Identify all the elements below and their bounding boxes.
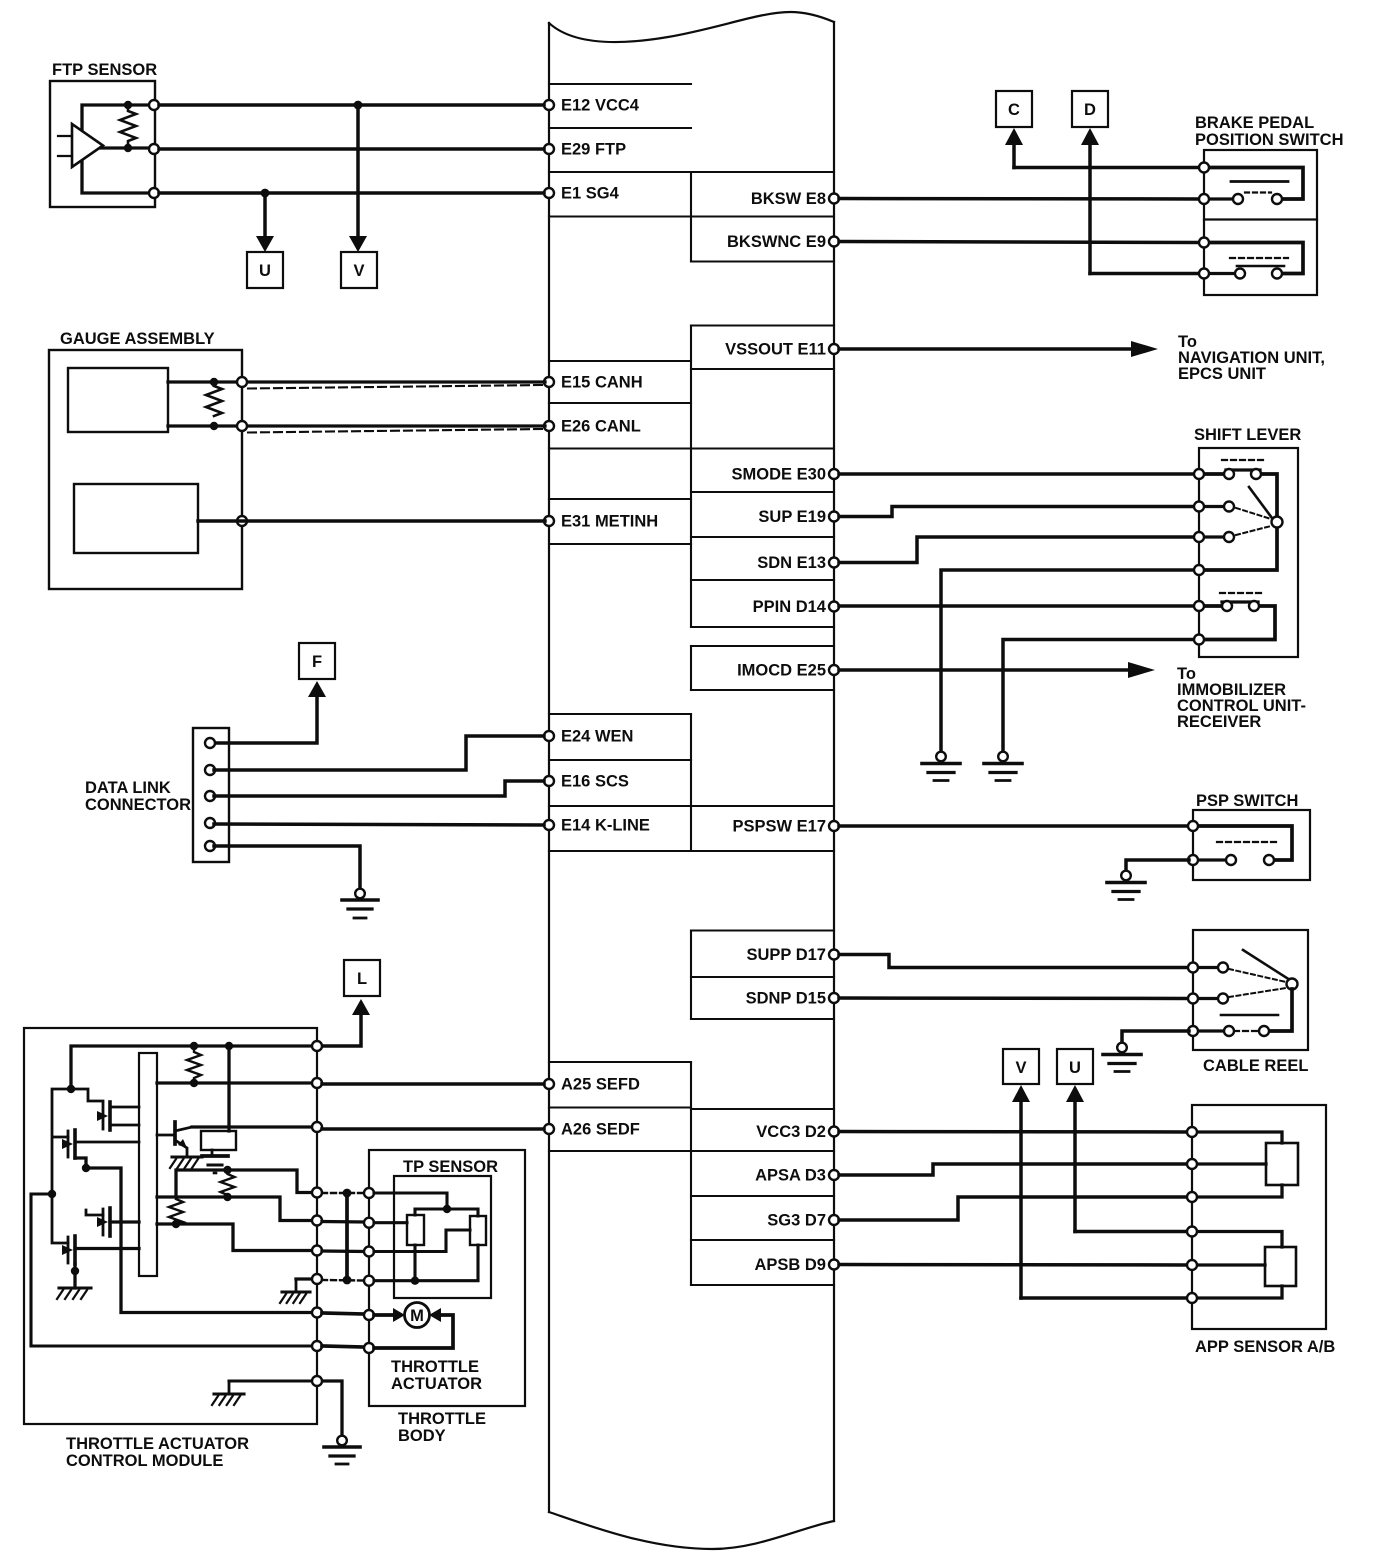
wire SUP E19 to shift lever [839,507,1195,517]
wire module pin 1 to connector L [321,1010,361,1046]
svg-text:E24 WEN: E24 WEN [561,728,633,746]
pin PSPSW E17 [732,818,839,836]
svg-text:PPIN D14: PPIN D14 [753,598,827,616]
wire FTP to E1 SG4 [159,191,544,195]
wire CANL dashed pair to E26 [248,429,543,433]
chassis ground symbol [324,1436,360,1464]
pin E31 METINH [544,513,658,531]
svg-text:GAUGE ASSEMBLY: GAUGE ASSEMBLY [60,330,215,348]
internal SEDF wire (collector to A26 pin) [192,1125,313,1128]
svg-text:V: V [353,262,364,280]
junction dots FTP [124,101,132,109]
resistor R-b [221,1170,235,1197]
wire SUPP D17 to cable reel [839,955,1189,968]
MOSFET Q2 [97,1102,110,1130]
wire SG3 D7 to APP sensor [839,1197,1188,1220]
THROTTLE BODY box [369,1150,525,1406]
pin VSSOUT E11 [725,341,839,359]
FTP op-amp (pressure transducer amp) [58,124,103,167]
shift lever internals [1204,460,1283,640]
pin E24 WEN [544,728,633,746]
wire C-line to switch [1014,166,1200,170]
svg-text:E12 VCC4: E12 VCC4 [561,97,640,115]
wire SMODE E30 to shift lever [839,472,1195,476]
pin APSA D3 [755,1167,839,1185]
pin SG3 D7 [767,1212,839,1230]
svg-text:PSP SWITCH: PSP SWITCH [1196,792,1298,810]
throttle actuator motor M [393,1303,441,1328]
junction node on VCC4 wire [354,101,363,110]
brake switch upper cell [1208,168,1303,205]
svg-text:A26 SEDF: A26 SEDF [561,1121,640,1139]
connector box U [247,252,283,288]
svg-text:BKSWNC E9: BKSWNC E9 [727,233,826,251]
svg-text:D: D [1084,101,1096,119]
svg-text:DATA LINK: DATA LINK [85,779,171,797]
harness wire row3 [322,1249,364,1253]
APP sensor pins [1187,1127,1197,1303]
wire PSPSW E17 to PSP switch [839,824,1189,828]
pin A26 SEDF [544,1121,640,1139]
connector box D [1072,91,1108,127]
connector box L [344,960,380,996]
DLC pins [205,738,215,851]
TP ground wire [374,1245,478,1281]
wire down to connector U [263,193,267,240]
svg-text:IMOCD E25: IMOCD E25 [737,662,826,680]
gauge unit 1 (meter) [68,368,168,432]
resistor R-c [169,1199,183,1224]
connector box C [996,91,1032,127]
ground (cable reel) [1103,1043,1141,1072]
wire left rail to module row 6 [31,1194,313,1346]
wire shift lever pin6 to ground [1003,640,1195,753]
pin SMODE E30 [732,466,839,484]
wire CANH dashed pair to E15 [248,385,543,389]
svg-text:SUP E19: SUP E19 [758,508,826,526]
wire BKSWNC E9 to switch [839,242,1200,243]
svg-text:SHIFT LEVER: SHIFT LEVER [1194,426,1301,444]
wire APP sensor pin4 up to U [1073,1097,1077,1232]
svg-text:THROTTLE: THROTTLE [398,1410,486,1428]
wire DLC pin2 to E24 WEN [214,736,544,770]
APP sensor element B [1196,1232,1296,1299]
svg-text:E15 CANH: E15 CANH [561,374,643,392]
svg-text:CABLE REEL: CABLE REEL [1203,1057,1308,1075]
wire APSA D3 to APP sensor [839,1164,1188,1175]
pin IMOCD E25 [737,662,839,680]
svg-text:E29 FTP: E29 FTP [561,141,626,159]
svg-text:FTP SENSOR: FTP SENSOR [52,61,157,79]
wire DLC pin1 up to F [214,692,317,743]
gauge pins [237,377,247,526]
svg-text:VCC3 D2: VCC3 D2 [756,1123,826,1141]
hatched ground row 4 [280,1279,310,1303]
module top rail wire [71,1046,313,1089]
internal row B wire [157,1197,313,1221]
wire PPIN D14 to shift lever [839,604,1195,608]
MOSFET Q3 [62,1130,75,1158]
svg-text:APSB D9: APSB D9 [754,1256,826,1274]
coil earth ground [202,1150,228,1173]
svg-text:F: F [312,653,322,671]
svg-text:U: U [1069,1059,1081,1077]
gauge assembly box [49,350,242,589]
svg-text:VSSOUT E11: VSSOUT E11 [725,341,826,359]
svg-text:A25 SEFD: A25 SEFD [561,1076,640,1094]
svg-text:SUPP D17: SUPP D17 [747,946,827,964]
PSP switch internals [1197,826,1292,865]
wire IMOCD E25 arrow [839,668,1129,672]
svg-text:E26 CANL: E26 CANL [561,418,641,436]
internal row A wire [176,1170,313,1196]
pin SDN E13 [757,554,839,572]
svg-text:BKSW E8: BKSW E8 [751,190,826,208]
wire A25 SEFD module to ECM [322,1082,544,1086]
terminating resistor between CANH/CANL [206,386,222,416]
svg-text:V: V [1015,1059,1026,1077]
wire V to APP sensor pin6 [1021,1296,1188,1300]
harness wire row5 (motor +) [322,1313,364,1314]
svg-text:BODY: BODY [398,1427,446,1445]
wire D-line to switch lower pin [1090,272,1200,276]
shift lever pins [1194,469,1204,645]
wire VCC3 D2 to APP sensor [839,1130,1188,1134]
gate rail wires [71,1089,103,1101]
connector box V (lower) [1003,1049,1039,1084]
svg-text:SG3 D7: SG3 D7 [767,1212,826,1230]
brake switch pins [1199,163,1209,279]
ECM/PCM connector band body (torn top edge) [549,12,834,1549]
connector box V [341,252,377,288]
wire DLC pin4 to E14 K-LINE [214,824,544,825]
ground (PSP switch) [1107,871,1145,900]
wire gauge METINH to E31 [198,519,545,523]
pin E16 SCS [544,773,629,791]
pin SDNP D15 [746,990,839,1008]
harness dashed wire row1 [322,1192,364,1194]
pin E14 K-LINE [544,817,650,835]
svg-text:BRAKE PEDAL: BRAKE PEDAL [1195,114,1314,132]
wire FTP to E29 FTP [159,147,544,151]
svg-text:E16 SCS: E16 SCS [561,773,629,791]
svg-text:SMODE E30: SMODE E30 [732,466,826,484]
pin SUP E19 [758,508,839,526]
wire Q3 source to row 5 [75,1158,313,1313]
gauge internal wires to CAN pins [168,382,545,426]
svg-text:THROTTLE ACTUATOR: THROTTLE ACTUATOR [66,1435,249,1453]
svg-text:E31 METINH: E31 METINH [561,513,658,531]
wire U to APP sensor pin4 [1075,1230,1188,1234]
wire VSSOUT E11 arrow [839,347,1132,351]
wire M4 gate tap [86,1210,103,1215]
TP wiper wire B [374,1230,470,1252]
module connector pins [312,1041,322,1386]
svg-text:E1 SG4: E1 SG4 [561,185,620,203]
pin APSB D9 [754,1256,839,1274]
data link connector body [193,728,229,862]
transistor Q1 [157,1122,192,1156]
resistor inside FTP sensor [120,105,136,145]
cable reel internals [1197,950,1298,1036]
FTP sensor pins [149,100,159,198]
Q5 source to hatched ground [73,1264,76,1288]
svg-text:ACTUATOR: ACTUATOR [391,1375,482,1393]
TP wiper wire A [374,1221,407,1224]
svg-text:M: M [410,1307,424,1325]
shift lever box [1199,448,1298,657]
pin A25 SEFD [544,1076,640,1094]
module pin row: bottom logic ground wire [229,1379,313,1382]
TP sensor box [394,1176,491,1298]
wire module case to chassis ground [321,1381,342,1436]
APP sensor element A [1196,1132,1298,1197]
wire APSB D9 to APP sensor [839,1263,1188,1267]
connector box F [299,643,335,679]
wire BKSWNC branch up to D [1088,140,1092,274]
svg-text:C: C [1008,101,1020,119]
PSP switch pins [1188,821,1198,865]
wire BKSW E8 to switch [839,197,1200,201]
PSP switch box [1193,810,1310,880]
pin VCC3 D2 [756,1123,839,1141]
pin E15 CANH [544,374,643,392]
wire down to connector V [356,105,360,240]
pin E29 FTP [544,141,626,159]
internal bus bar [139,1053,157,1276]
pin BKSW E8 [751,190,839,208]
TP sensor supply wire [374,1193,478,1216]
wire FTP to E12 VCC4 [159,103,544,107]
junction node on SG4 wire [261,189,270,198]
pin PPIN D14 [753,598,839,616]
svg-text:E14 K-LINE: E14 K-LINE [561,817,650,835]
solenoid coil box [201,1131,236,1150]
pin BKSWNC E9 [727,233,839,251]
pin E1 SG4 [544,185,620,203]
svg-text:SDN E13: SDN E13 [757,554,826,572]
svg-text:THROTTLE: THROTTLE [391,1358,479,1376]
internal row C wire [157,1224,313,1251]
TP potentiometer A [407,1215,424,1245]
wire DLC pin5 to ground [214,846,360,889]
THROTTLE ACTUATOR CONTROL MODULE box [24,1028,317,1424]
pin E12 VCC4 [544,97,640,115]
throttle body connector pins [364,1188,374,1353]
ground (shift lever pin6) [984,752,1022,781]
wire SDNP D15 to cable reel [839,996,1189,1000]
wire cable reel to ground [1122,1031,1189,1043]
gauge unit 2 [74,484,198,553]
APP sensor box [1192,1105,1326,1329]
svg-text:APP SENSOR A/B: APP SENSOR A/B [1195,1338,1335,1356]
motor wires [374,1315,453,1348]
TP potentiometer B [470,1216,486,1245]
wire PSP switch to ground [1126,860,1189,871]
wire APP sensor pin6 up to V [1019,1097,1023,1298]
svg-text:EPCS UNIT: EPCS UNIT [1178,365,1266,383]
svg-text:PSPSW E17: PSPSW E17 [732,818,826,836]
connector box U (lower) [1057,1049,1093,1084]
svg-text:CONNECTOR: CONNECTOR [85,796,191,814]
harness wire row2 [322,1220,364,1224]
internal SEFD wire [157,1081,313,1084]
svg-text:U: U [259,262,271,280]
brake pedal position switch box [1204,150,1317,295]
MOSFET Q5 [62,1236,75,1264]
connector pin-label grid lines [549,84,834,1285]
svg-text:L: L [357,970,367,988]
brake switch lower cell [1208,243,1303,279]
wire to solenoid coil [227,1046,230,1131]
transistor emitter hatched ground [170,1157,202,1168]
svg-text:APSA D3: APSA D3 [755,1167,826,1185]
svg-text:POSITION SWITCH: POSITION SWITCH [1195,131,1344,149]
ground (data link connector) [342,889,378,918]
pin SUPP D17 [747,946,840,964]
harness dashed wire row4 [322,1279,364,1282]
wire BKSW branch up to C [1012,140,1016,168]
wire shift lever pin4 to ground [941,570,1195,752]
row C stub left of bus bar [110,1220,139,1223]
resistor R-a (rail to SEFD line) [187,1046,201,1082]
FTP sensor box [50,81,155,207]
wire SDN E13 to shift lever [839,537,1195,563]
cable reel box [1193,930,1308,1050]
cable reel pins [1188,963,1198,1037]
MOSFET Q4 [97,1208,110,1236]
svg-text:CONTROL MODULE: CONTROL MODULE [66,1452,223,1470]
wire A26 SEDF module to ECM [322,1127,544,1131]
svg-text:TP SENSOR: TP SENSOR [403,1158,498,1176]
FTP sensor internal wires [82,105,150,193]
harness wire row6 (motor -) [322,1346,364,1347]
svg-text:RECEIVER: RECEIVER [1177,713,1261,731]
wire DLC pin3 to E16 SCS [214,781,544,796]
pin E26 CANL [544,418,641,436]
shield link wire [345,1193,349,1280]
ground (shift lever pin4) [922,752,960,781]
row wire Q5 drain to bus bar [75,1247,139,1250]
svg-text:SDNP D15: SDNP D15 [746,990,826,1008]
